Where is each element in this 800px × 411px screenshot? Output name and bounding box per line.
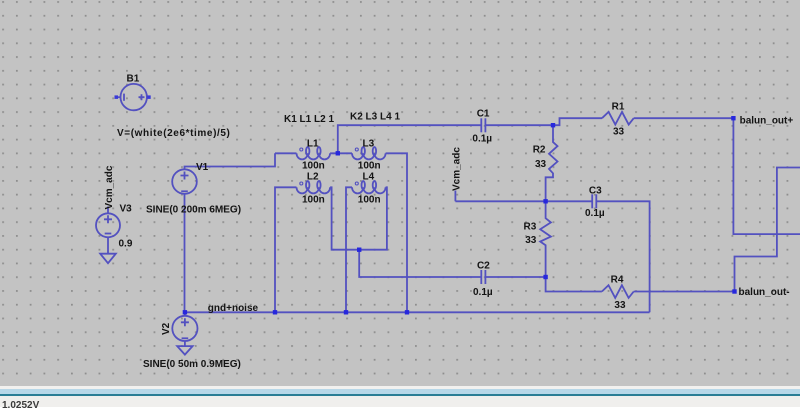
svg-text:Vcm_adc: Vcm_adc: [104, 165, 115, 209]
node gnd V2: [183, 310, 187, 314]
capacitor C3: [592, 194, 596, 208]
svg-text:V1: V1: [196, 162, 209, 173]
wire L1 left lead: [275, 152, 297, 154]
resistor R1: [602, 112, 634, 125]
svg-text:0.9: 0.9: [119, 239, 133, 250]
voltage source V2: [172, 312, 197, 346]
node C2-R3-R4: [543, 275, 547, 279]
svg-text:100n: 100n: [302, 194, 325, 205]
svg-text:K2 L3 L4 1: K2 L3 L4 1: [350, 112, 400, 123]
svg-text:C2: C2: [477, 261, 490, 272]
node gnd L4: [344, 310, 348, 314]
svg-text:V3: V3: [120, 203, 133, 214]
wire L2 left lead and down: [275, 187, 297, 312]
wire R4 to balun_out- node: [634, 291, 735, 293]
svg-text:gnd+noise: gnd+noise: [208, 303, 259, 314]
resistor R2: [546, 125, 558, 201]
svg-text:0.1µ: 0.1µ: [472, 133, 492, 144]
node C1-R2-R1: [551, 123, 555, 127]
ground V3: [100, 254, 116, 264]
wire L1 to L3: [330, 152, 352, 154]
wire C3 right then down to gnd line: [596, 201, 649, 312]
svg-text:0.1µ: 0.1µ: [473, 287, 493, 298]
wire L4 right down to rail: [359, 187, 387, 249]
capacitor C1: [481, 118, 485, 132]
wire Vcm_adc stub: [454, 191, 456, 202]
svg-text:Vcm_adc: Vcm_adc: [452, 147, 463, 191]
wire C2 right to node: [485, 276, 545, 278]
voltage source V1: [172, 169, 197, 194]
status bar text: [2, 400, 39, 411]
resistor R4: [602, 285, 634, 298]
svg-text:0.1µ: 0.1µ: [585, 208, 605, 219]
svg-text:33: 33: [613, 127, 625, 138]
svg-text:balun_out+: balun_out+: [740, 115, 794, 126]
svg-text:R2: R2: [533, 144, 546, 155]
wire C3 line left: [455, 200, 592, 202]
svg-text:B1: B1: [127, 74, 140, 85]
ground V2: [177, 346, 192, 355]
node L2-L4 rail: [357, 248, 361, 252]
svg-text:balun_out-: balun_out-: [739, 287, 790, 298]
wire L3 right to corner: [386, 153, 407, 312]
behavioral source B1: [115, 84, 151, 110]
svg-text:SINE(0 200m 6MEG): SINE(0 200m 6MEG): [146, 204, 241, 215]
resistor R3: [540, 201, 551, 277]
svg-text:L3: L3: [363, 138, 375, 149]
svg-text:100n: 100n: [358, 161, 381, 172]
svg-text:V2: V2: [161, 322, 172, 335]
node balun_out+: [731, 116, 735, 120]
node L1-L3: [336, 151, 340, 155]
svg-text:SINE(0 50m 0.9MEG): SINE(0 50m 0.9MEG): [143, 359, 241, 370]
svg-text:R3: R3: [524, 221, 537, 232]
svg-text:100n: 100n: [358, 194, 381, 205]
wire L4 left lead down to gnd: [346, 187, 352, 312]
voltage source V3: [96, 207, 120, 254]
wire rail node down to C2 line: [359, 250, 481, 277]
node balun_out-: [732, 289, 736, 293]
bottom separator bands: [0, 386, 800, 389]
inductor L1: [297, 147, 331, 159]
svg-text:33: 33: [535, 159, 547, 170]
junction nodes: [183, 116, 737, 315]
svg-text:L4: L4: [363, 172, 375, 183]
wire C1 to node B: [485, 124, 553, 126]
svg-text:33: 33: [525, 235, 537, 246]
inductor L4: [352, 181, 386, 193]
wire node down to R4 line: [546, 277, 602, 292]
wire balun_out+ down and right off-screen: [733, 118, 800, 234]
svg-text:L2: L2: [307, 172, 319, 183]
svg-text:C3: C3: [589, 185, 602, 196]
svg-text:R1: R1: [612, 102, 625, 113]
inductor L2: [297, 181, 331, 193]
node R2-C3-R3: [543, 199, 547, 203]
wire L2 right down to rail: [330, 187, 359, 249]
wire V1 bottom down to gnd rail: [184, 194, 186, 312]
inductor L3: [352, 147, 386, 159]
node gnd L2: [273, 310, 277, 314]
svg-text:R4: R4: [611, 275, 624, 286]
wire V1 top to jog: [185, 153, 276, 169]
svg-text:L1: L1: [307, 138, 319, 149]
wire node B jog to R1: [553, 118, 602, 125]
svg-text:C1: C1: [477, 109, 490, 120]
wire right edge stair to balun_out-: [735, 168, 800, 292]
capacitor C2: [481, 270, 485, 284]
svg-text:K1 L1 L2 1: K1 L1 L2 1: [284, 114, 334, 125]
wire R1 to balun_out+ node: [634, 117, 734, 119]
svg-text:100n: 100n: [302, 161, 325, 172]
svg-text:V=(white(2e6*time)/5): V=(white(2e6*time)/5): [117, 128, 230, 139]
node gnd L3: [405, 310, 409, 314]
wire node A up to C1 level: [338, 125, 482, 153]
svg-text:33: 33: [614, 300, 626, 311]
wire gnd+noise rail: [185, 311, 650, 313]
